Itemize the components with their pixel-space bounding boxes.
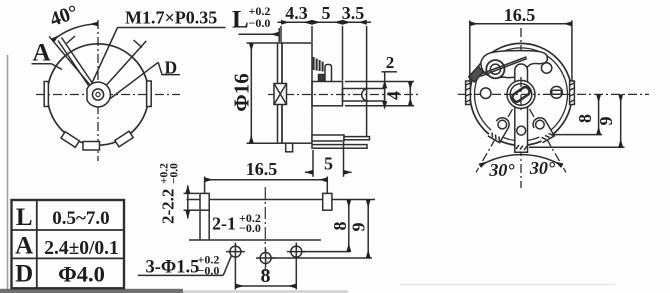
front view vertical centerline <box>97 20 99 161</box>
mounting hole middle <box>260 253 271 264</box>
svg-text:Φ4.0: Φ4.0 <box>58 262 105 287</box>
wiper arm <box>481 51 547 78</box>
dimension 9 (bottom view vertical) <box>367 200 369 258</box>
table frame <box>12 200 125 288</box>
hole extension lines down <box>234 261 236 290</box>
svg-text:9: 9 <box>596 117 616 126</box>
body hole left <box>480 88 491 99</box>
shaft center dot <box>96 92 100 96</box>
hub circles <box>507 80 535 108</box>
front bottom-left tab <box>61 132 79 148</box>
svg-text:4.3: 4.3 <box>285 3 308 23</box>
svg-text:A: A <box>15 233 33 260</box>
svg-text:−0.0: −0.0 <box>249 16 271 30</box>
dimension 16.5 (back) <box>469 21 471 81</box>
front left side tab <box>44 82 48 107</box>
spring wire <box>480 57 527 75</box>
svg-text:Φ16: Φ16 <box>230 73 254 111</box>
dimension 16.5 (bottom) <box>204 177 206 194</box>
svg-text:2: 2 <box>386 53 395 72</box>
svg-text:16.5: 16.5 <box>246 159 278 179</box>
right outer leg <box>531 115 555 142</box>
dimension 8 (bottom horizontal) <box>236 285 297 287</box>
back vertical centerline <box>520 28 522 188</box>
solder lug (dark) <box>469 66 484 81</box>
top outline line <box>187 199 376 201</box>
svg-text:5: 5 <box>322 3 331 23</box>
svg-text:5: 5 <box>324 154 333 174</box>
side cover plate <box>278 43 283 143</box>
30 degree arc <box>480 155 562 166</box>
svg-text:30°: 30° <box>488 160 515 180</box>
svg-text:3.5: 3.5 <box>342 3 365 23</box>
broken shaft stub (break box) <box>274 84 287 105</box>
svg-text:A: A <box>33 40 51 67</box>
left slot <box>200 193 209 210</box>
center leg hatch <box>516 145 519 149</box>
body hole right with slot <box>551 86 563 98</box>
center column <box>515 64 528 152</box>
svg-text:30°: 30° <box>529 158 556 178</box>
left outer leg <box>488 115 512 142</box>
front bottom-center tab <box>83 142 100 151</box>
front bottom-right tab <box>115 131 133 147</box>
scan artifact: bottom dark band <box>0 289 183 293</box>
svg-text:8: 8 <box>575 114 595 123</box>
svg-text:2-2.2: 2-2.2 <box>159 189 178 224</box>
dimension Phi16 <box>247 42 278 44</box>
svg-text:2.4±0/0.1: 2.4±0/0.1 <box>44 238 119 259</box>
svg-text:8: 8 <box>261 265 271 287</box>
dimension 4 (shaft dia) <box>345 81 414 83</box>
tick on flat lines <box>67 36 76 44</box>
svg-text:D: D <box>15 261 33 288</box>
dimension 8 (back) <box>552 134 602 136</box>
back horizontal centerline <box>458 93 649 95</box>
side body <box>282 43 312 143</box>
front view horizontal centerline <box>36 94 180 96</box>
lower outline line <box>189 239 321 241</box>
front body circle <box>47 44 148 145</box>
top dimension chain <box>278 21 372 23</box>
40 degree dimension arc <box>53 24 98 41</box>
ext lines to 8/9 dims <box>302 251 351 253</box>
40 degree rotation line <box>49 36 90 84</box>
dimension 5 (bottom of side view) <box>312 150 314 177</box>
back right tab <box>570 81 575 105</box>
svg-text:0.5~7.0: 0.5~7.0 <box>52 208 109 229</box>
svg-text:16.5: 16.5 <box>504 5 536 25</box>
label 2-2.2 tol <box>159 163 181 224</box>
svg-text:4: 4 <box>384 91 404 100</box>
svg-text:−0.0: −0.0 <box>169 163 181 184</box>
front right side tab <box>147 81 152 107</box>
center leg hole <box>517 126 526 135</box>
middle terminal <box>312 135 344 141</box>
mounting hole right <box>291 246 302 257</box>
svg-text:9: 9 <box>349 223 369 232</box>
svg-text:8: 8 <box>330 222 350 231</box>
hub slot <box>511 86 531 103</box>
svg-text:−0.0: −0.0 <box>239 221 261 235</box>
back 30deg centerlines <box>476 94 521 172</box>
right wiper line with tick <box>107 41 147 85</box>
svg-text:L: L <box>232 7 249 34</box>
scan artifact: left grey edge line <box>7 55 9 293</box>
back left tab <box>466 81 471 105</box>
svg-text:2-1: 2-1 <box>212 214 236 234</box>
svg-text:M1.7×P0.35: M1.7×P0.35 <box>125 8 217 28</box>
flat reference line pair (A) <box>58 41 89 86</box>
mounting hole left <box>230 246 241 257</box>
dimension 9 (back) <box>529 146 625 148</box>
svg-text:40°: 40° <box>47 1 81 31</box>
shaft tip <box>343 89 385 102</box>
wiper eyelet <box>486 60 504 78</box>
body hole upper right <box>541 63 551 73</box>
slot extension lines <box>199 210 201 240</box>
slot width dim (2-2.2) <box>184 192 200 194</box>
hub centerline overdraw <box>504 93 538 95</box>
svg-text:3-Φ1.5: 3-Φ1.5 <box>146 258 200 278</box>
screwdriver slot <box>362 89 368 102</box>
bottom view centerline <box>264 187 266 271</box>
right slot <box>323 193 332 210</box>
lower terminal <box>312 145 367 149</box>
thread comb (M1.7 screw) <box>313 57 315 70</box>
shaft boss circle with flat <box>87 82 110 107</box>
shaft inner circle <box>92 89 103 100</box>
svg-text:L: L <box>16 204 33 231</box>
back inner rim circle <box>475 48 568 141</box>
dimension 8 (bottom view vertical) <box>348 200 350 252</box>
side view horizontal centerline <box>268 94 421 96</box>
side bottom tab <box>286 143 293 152</box>
shaft flange <box>312 82 343 106</box>
back body circle <box>470 43 572 145</box>
